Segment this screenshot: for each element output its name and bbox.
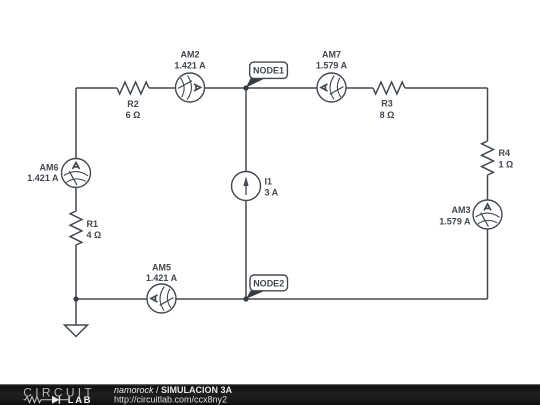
svg-text:AM5: AM5 <box>152 263 171 273</box>
ground junction dot <box>73 296 78 301</box>
ammeter AM3 <box>473 200 502 229</box>
resistor R1 <box>70 211 82 245</box>
ammeter AM7 <box>317 73 346 102</box>
svg-text:1.421 A: 1.421 A <box>27 173 59 183</box>
current source I1 <box>232 172 261 201</box>
resistor R2 <box>117 82 149 94</box>
ammeter AM5 <box>147 284 176 313</box>
wire bottom (corner to AM5) <box>176 298 488 300</box>
svg-text:4 Ω: 4 Ω <box>87 230 102 240</box>
svg-text:1.579 A: 1.579 A <box>316 61 348 71</box>
wire top-left (corner to R2) <box>76 87 117 89</box>
wire left top (corner to AM6) <box>75 88 77 159</box>
wire R3 to top-right corner <box>405 87 488 89</box>
node NODE2 pointer <box>246 291 265 299</box>
wire AM3 to bottom-right corner <box>487 229 489 299</box>
wire AM6 to R1 <box>75 188 77 212</box>
node NODE2 junction dot <box>243 296 248 301</box>
svg-text:AM7: AM7 <box>322 50 341 60</box>
logo circuit line with resistor <box>24 397 53 403</box>
svg-text:1.579 A: 1.579 A <box>439 217 471 227</box>
svg-text:http://circuitlab.com/ccx8ny2: http://circuitlab.com/ccx8ny2 <box>114 394 227 404</box>
svg-text:1 Ω: 1 Ω <box>499 160 514 170</box>
svg-text:LAB: LAB <box>68 395 92 405</box>
svg-text:R1: R1 <box>87 219 99 229</box>
svg-text:R3: R3 <box>381 98 393 108</box>
wire center top (NODE1 to I1) <box>245 88 247 172</box>
svg-text:R2: R2 <box>127 99 139 109</box>
svg-text:NODE1: NODE1 <box>253 66 284 76</box>
svg-text:3 A: 3 A <box>265 188 279 198</box>
node NODE2 label box <box>250 275 288 291</box>
svg-text:AM3: AM3 <box>451 205 470 215</box>
svg-text:R4: R4 <box>499 148 511 158</box>
svg-text:8 Ω: 8 Ω <box>380 110 395 120</box>
svg-text:1.421 A: 1.421 A <box>146 273 178 283</box>
wire R4 to AM3 <box>487 175 489 200</box>
svg-text:1.421 A: 1.421 A <box>174 61 206 71</box>
svg-text:6 Ω: 6 Ω <box>126 110 141 120</box>
resistor R4 <box>482 141 494 175</box>
wire right top (corner to R4) <box>487 88 489 141</box>
wire R1 to ground junction <box>75 245 77 299</box>
svg-text:I1: I1 <box>265 177 273 187</box>
svg-text:NODE2: NODE2 <box>253 278 284 288</box>
resistor R3 <box>373 82 405 94</box>
wire R2 to AM2 <box>149 87 176 89</box>
ammeter AM6 <box>62 159 91 188</box>
node NODE1 label box <box>250 62 288 78</box>
node NODE1 pointer <box>246 78 265 87</box>
footer bar <box>0 384 540 405</box>
ammeter AM2 <box>176 73 205 102</box>
wire AM7 to R3 <box>346 87 373 89</box>
wire AM2 to AM7 <box>205 87 318 89</box>
logo diode <box>52 396 68 404</box>
node NODE1 junction dot <box>243 85 248 90</box>
svg-text:AM6: AM6 <box>39 163 58 173</box>
ground <box>65 299 88 337</box>
wire AM5 to ground junction <box>76 298 147 300</box>
wire I1 to NODE2 <box>245 201 247 300</box>
svg-text:AM2: AM2 <box>180 50 199 60</box>
